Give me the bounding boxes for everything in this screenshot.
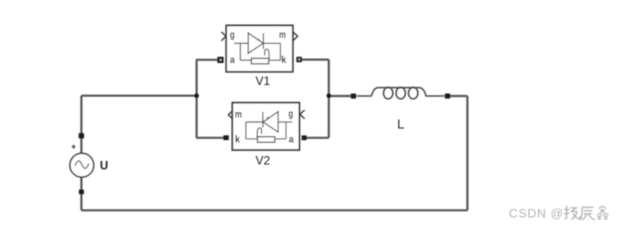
wire left vertical bus (196, 60, 198, 138)
watermark char chen (581, 207, 595, 220)
inductor loop 1 (384, 87, 393, 99)
wire source top (80, 96, 82, 154)
thyristor V2 (228, 103, 304, 150)
svg-text:k: k (281, 55, 286, 66)
thyristor V1 symbol (triangle, cathode bar, gate curve, snubber loop) (234, 33, 280, 60)
node right junction (327, 93, 332, 98)
wire L left lead (356, 95, 371, 97)
pin a port pad V2 (302, 135, 307, 140)
sine wave inside U (75, 161, 89, 168)
wire left bus to source (81, 95, 196, 97)
wire V2 anode to right bus (306, 137, 329, 139)
wire right vertical bus (328, 60, 330, 138)
watermark char yang (564, 206, 580, 220)
arrow dot on V2 triangle edge (267, 117, 269, 119)
pin - port pad U bottom (79, 190, 84, 195)
pin k port pad V2 (223, 135, 228, 140)
wire V2 cathode to left bus (196, 137, 223, 139)
svg-text:CSDN @: CSDN @ (509, 206, 564, 220)
thyristor V2 symbol (mirrored triangle, cathode bar, gate curve, snubber loop) (246, 112, 292, 139)
svg-text:V2: V2 (256, 154, 271, 168)
svg-text:a: a (230, 55, 235, 66)
wire source bottom (80, 177, 82, 210)
pin k port pad V1 (296, 57, 301, 62)
svg-text:m: m (235, 110, 242, 121)
watermark char xin (597, 206, 609, 220)
snubber resistor box inside V1 (251, 58, 268, 64)
thyristor V2 block outline (232, 103, 299, 150)
wire L right to corner (450, 95, 468, 97)
inductor L (356, 87, 444, 99)
svg-text:g: g (288, 109, 293, 120)
snubber resistor box inside V2 (258, 137, 275, 143)
pin m output arrow (228, 110, 233, 119)
thyristor V1 block outline (226, 25, 293, 71)
svg-text:L: L (397, 116, 404, 131)
inductor loop 3 (409, 87, 418, 99)
pin a port pad V1 (217, 57, 223, 63)
node left junction (194, 93, 199, 98)
wire V1 cathode to right bus (301, 58, 329, 60)
pin port pad L left (351, 94, 356, 99)
svg-text:k: k (235, 134, 240, 145)
thyristor V1 (221, 25, 297, 71)
pin port pad L right (445, 94, 450, 99)
ac source U (70, 145, 94, 178)
inductor coil top line (372, 88, 445, 96)
inductor loop 2 (396, 87, 405, 99)
svg-text:g: g (230, 30, 235, 41)
pin m output arrow (293, 32, 298, 41)
wire junction to L left (329, 95, 352, 97)
pin g input arrow (221, 32, 226, 41)
wire right vertical down (466, 96, 468, 210)
svg-text:V1: V1 (256, 74, 271, 88)
source circle U (70, 153, 94, 177)
wire V1 anode to left bus (196, 59, 218, 61)
wire bottom rail (81, 209, 467, 211)
arrow dot on V1 triangle edge (258, 39, 260, 41)
svg-text:m: m (279, 30, 286, 41)
svg-text:U: U (100, 161, 108, 173)
svg-text:a: a (289, 134, 294, 145)
pin + port pad U top (79, 133, 84, 138)
plus sign at U positive terminal (72, 145, 76, 149)
pin g input arrow (300, 110, 305, 119)
